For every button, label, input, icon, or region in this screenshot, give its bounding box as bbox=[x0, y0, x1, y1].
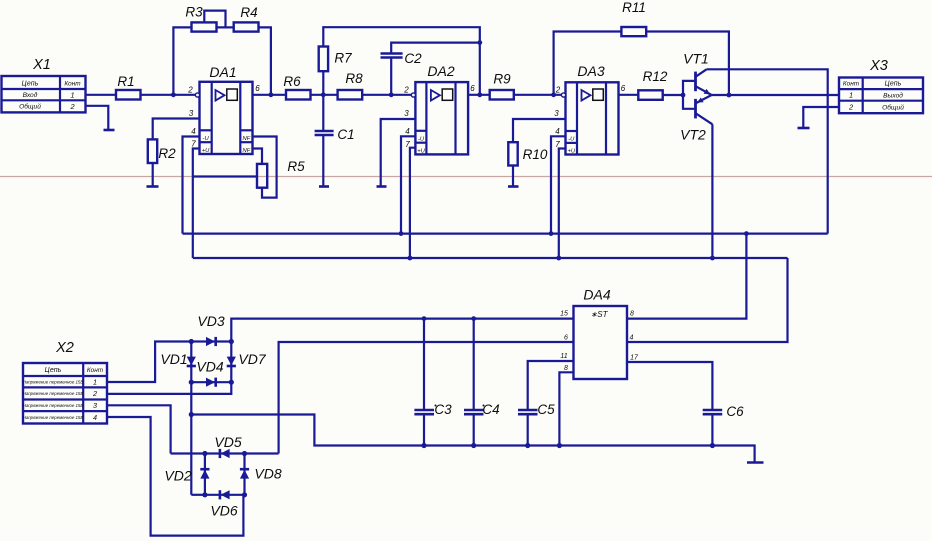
ground bar bus end bbox=[747, 461, 764, 464]
svg-text:3: 3 bbox=[404, 109, 409, 118]
wire R4 to DA1 output node bbox=[259, 27, 271, 94]
svg-text:-U: -U bbox=[418, 137, 425, 143]
node lower bus DA3 bbox=[556, 256, 561, 261]
node upper bus DA2 bbox=[399, 231, 404, 236]
wire R3 wiper bracket bbox=[204, 11, 225, 28]
node C3 top bbox=[422, 316, 427, 321]
svg-text:Напряжение переменное 15В: Напряжение переменное 15В bbox=[23, 415, 84, 420]
wire lower supply bus bbox=[193, 257, 788, 259]
svg-text:R3: R3 bbox=[185, 5, 203, 20]
svg-text:VT2: VT2 bbox=[680, 127, 706, 143]
wire DA1 NF top to R5 bottom loop bbox=[253, 137, 277, 198]
svg-text:VD6: VD6 bbox=[210, 503, 237, 519]
node bridge2 bottom left bbox=[202, 492, 207, 497]
node C4 top bbox=[471, 316, 476, 321]
wire R1 to DA1 input bbox=[141, 94, 196, 96]
wire DA2 out to R9 bbox=[468, 94, 490, 96]
wire X2 pin2 to bridge1 bbox=[107, 382, 231, 394]
svg-text:3: 3 bbox=[189, 109, 194, 118]
wire R7 top rail to DA2 output bbox=[323, 27, 480, 95]
svg-text:R5: R5 bbox=[287, 159, 305, 174]
diode VD8 bbox=[240, 469, 249, 478]
wire bridge1 left to bridge2 bottom bbox=[191, 494, 205, 496]
wire DA1 out to R6 bbox=[253, 94, 287, 96]
svg-text:VD8: VD8 bbox=[254, 466, 281, 482]
svg-text:2: 2 bbox=[69, 102, 74, 111]
svg-text:+U: +U bbox=[568, 149, 576, 155]
wire DA4 pin11 to C5 bbox=[528, 361, 574, 410]
svg-text:∗ST: ∗ST bbox=[591, 310, 609, 319]
svg-text:4: 4 bbox=[191, 127, 196, 136]
svg-text:4: 4 bbox=[555, 127, 560, 136]
svg-text:6: 6 bbox=[621, 84, 626, 93]
svg-text:DA4: DA4 bbox=[583, 287, 610, 303]
wire C2 bottom bbox=[390, 58, 392, 95]
svg-text:-U: -U bbox=[568, 137, 575, 143]
svg-text:15: 15 bbox=[560, 311, 568, 318]
wire DA1 pin3 to R2 bbox=[153, 119, 200, 140]
wire DA1 pin4 to upper bus bbox=[183, 137, 200, 234]
node output junction R11 bbox=[727, 93, 732, 98]
wire R10 to ground bbox=[512, 166, 514, 187]
wire DA3 pin3 to R10 bbox=[513, 119, 566, 142]
wire DA2 pin3 to ground bbox=[381, 119, 416, 186]
wire DA4 pin17 to C6 bbox=[627, 362, 712, 410]
svg-text:X3: X3 bbox=[869, 58, 888, 74]
svg-text:Вход: Вход bbox=[23, 91, 38, 99]
transistor VT2 bbox=[683, 95, 712, 124]
wire DA1 pin7 tap to R5 bbox=[193, 175, 257, 177]
wire VT1 collector to supply corner bbox=[707, 69, 828, 233]
svg-text:NF: NF bbox=[243, 148, 251, 154]
svg-text:8: 8 bbox=[564, 365, 568, 372]
svg-text:C3: C3 bbox=[434, 402, 452, 417]
svg-text:8: 8 bbox=[630, 311, 634, 318]
node bus C4 bbox=[471, 443, 476, 448]
svg-text:R10: R10 bbox=[523, 147, 548, 162]
wire DA3 pin7 to lower bus bbox=[559, 149, 566, 259]
wire R11 to emitter node bbox=[646, 32, 729, 95]
capacitor C2 bbox=[381, 54, 403, 58]
svg-text:Конт: Конт bbox=[87, 367, 104, 374]
wire feedback riser left bbox=[173, 27, 191, 94]
diode VD6 bbox=[220, 490, 230, 499]
svg-text:VT1: VT1 bbox=[683, 51, 709, 67]
ground bar R2 bbox=[147, 185, 159, 188]
svg-text:11: 11 bbox=[560, 353, 567, 360]
wire DA2 pin4 to upper bus bbox=[401, 136, 415, 233]
svg-text:Цепь: Цепь bbox=[22, 80, 39, 87]
wire R6 to R8 bbox=[311, 94, 338, 96]
svg-text:Общий: Общий bbox=[19, 103, 41, 111]
wire DA4 pin6 from bridge2 bbox=[279, 342, 574, 454]
wire R12 to base node bbox=[663, 94, 683, 96]
ground bar C1 bbox=[319, 185, 329, 188]
svg-text:NF: NF bbox=[243, 136, 251, 142]
diode VD2 bbox=[200, 469, 209, 478]
node bridge1 top right bbox=[229, 339, 234, 344]
bridge2 left branch bbox=[204, 454, 206, 495]
svg-text:Цепь: Цепь bbox=[45, 367, 62, 374]
svg-text:C4: C4 bbox=[482, 402, 499, 417]
svg-text:VD3: VD3 bbox=[197, 313, 224, 329]
svg-text:1: 1 bbox=[849, 91, 853, 100]
capacitor C4 bbox=[464, 319, 484, 446]
connector X1 bbox=[2, 76, 86, 112]
svg-text:R1: R1 bbox=[117, 74, 134, 89]
bridge2 top rail bbox=[171, 452, 279, 454]
node bus C5 bbox=[525, 443, 530, 448]
svg-text:7: 7 bbox=[191, 140, 196, 149]
node bridge1 bottom right bbox=[229, 380, 234, 385]
svg-text:Напряжение переменное 15В: Напряжение переменное 15В bbox=[23, 380, 84, 385]
capacitor C1 bbox=[315, 131, 334, 135]
wire X1 pin1 to R1 bbox=[86, 94, 117, 96]
node bus C3 bbox=[421, 443, 426, 448]
wire emitter output to X3 pin1 bbox=[712, 94, 839, 96]
svg-text:2: 2 bbox=[848, 103, 853, 112]
op-amp DA2 bbox=[411, 82, 468, 154]
fold line artifact bbox=[0, 176, 932, 178]
ground bar DA2 pin3 bbox=[377, 185, 387, 188]
svg-text:DA3: DA3 bbox=[577, 63, 604, 79]
svg-text:VD1: VD1 bbox=[160, 351, 187, 367]
wire X2 pin3 to bridge2 bbox=[107, 405, 171, 453]
op-amp DA3 bbox=[561, 82, 618, 154]
node bus DA4 pin8 bbox=[557, 443, 562, 448]
wire X3 pin2 to ground bbox=[803, 107, 839, 128]
wire X1 pin2 to ground bbox=[86, 106, 109, 130]
wire C2 top to output riser bbox=[391, 43, 480, 54]
svg-text:X1: X1 bbox=[32, 57, 51, 73]
svg-text:Напряжение переменное 15В: Напряжение переменное 15В bbox=[23, 391, 84, 396]
svg-text:1: 1 bbox=[70, 91, 74, 100]
wire lower bus to DA4 pin4 right bbox=[627, 258, 788, 342]
svg-text:1: 1 bbox=[93, 378, 97, 387]
node lower bus DA2 bbox=[408, 256, 413, 261]
wire DA3 out to R12 bbox=[619, 94, 639, 96]
svg-text:R6: R6 bbox=[283, 74, 301, 89]
chip DA4 bbox=[574, 306, 628, 379]
wire DA4 pin8 left to bus bbox=[559, 372, 573, 445]
node lower bus VT2 bbox=[710, 256, 715, 261]
node bus C6 bbox=[710, 443, 715, 448]
resistor R7 bbox=[319, 47, 328, 72]
svg-text:C2: C2 bbox=[404, 51, 422, 66]
diode VD3 bbox=[206, 337, 216, 346]
transistor VT1 bbox=[683, 69, 712, 95]
node R6 R7 C1 junction bbox=[321, 92, 326, 97]
svg-text:2: 2 bbox=[403, 86, 409, 95]
node DA2 output bbox=[477, 92, 482, 97]
resistor R3 bbox=[192, 22, 217, 31]
capacitor C5 bbox=[518, 410, 538, 446]
svg-text:2: 2 bbox=[92, 389, 97, 398]
node bridge2 top right bbox=[242, 451, 247, 456]
svg-text:3: 3 bbox=[554, 109, 559, 118]
wire R2 to ground bbox=[152, 163, 154, 186]
diode VD1 bbox=[187, 357, 196, 366]
wire upper supply bus bbox=[183, 233, 828, 235]
resistor R1 bbox=[116, 90, 141, 100]
bridge2 bottom rail bbox=[205, 494, 245, 496]
svg-text:2: 2 bbox=[187, 86, 193, 95]
wire VT2 collector to lower bus bbox=[711, 124, 713, 258]
resistor R5 bbox=[257, 164, 267, 188]
svg-text:Конт: Конт bbox=[64, 80, 81, 87]
svg-text:Напряжение переменное 15В: Напряжение переменное 15В bbox=[23, 403, 84, 408]
svg-text:6: 6 bbox=[470, 84, 475, 93]
node upper bus DA4 bbox=[744, 231, 749, 236]
wire C1 top bbox=[322, 95, 324, 131]
resistor R11 bbox=[621, 27, 646, 36]
wire R9 to DA3 input bbox=[514, 94, 562, 96]
ground bar X1 bbox=[104, 129, 115, 132]
wire DA3 pin4 to upper bus bbox=[551, 136, 566, 233]
svg-text:VD5: VD5 bbox=[214, 434, 241, 450]
svg-text:R2: R2 bbox=[158, 146, 176, 161]
svg-text:6: 6 bbox=[255, 84, 260, 93]
svg-text:C6: C6 bbox=[726, 404, 744, 419]
svg-text:R11: R11 bbox=[622, 0, 646, 15]
node bridge1 to ground bus bbox=[189, 412, 194, 417]
wire DA2 pin7 to lower bus bbox=[410, 148, 416, 258]
svg-text:4: 4 bbox=[630, 335, 634, 342]
ground bar X3 bbox=[798, 127, 810, 130]
svg-text:17: 17 bbox=[630, 355, 639, 362]
svg-text:6: 6 bbox=[564, 335, 568, 342]
resistor R9 bbox=[490, 90, 514, 100]
bridge1 right branch bbox=[230, 342, 232, 383]
svg-text:DA1: DA1 bbox=[209, 64, 236, 80]
node bridge1 bottom left bbox=[189, 380, 194, 385]
resistor R6 bbox=[286, 90, 311, 100]
wire X2 pin4 to bridge2 bbox=[107, 417, 243, 536]
wire DA1 pin7 to lower bus bbox=[193, 149, 200, 259]
svg-text:C5: C5 bbox=[537, 402, 555, 417]
wire R7 bottom bbox=[322, 71, 324, 95]
wire X2 pin1 to bridge1 bbox=[107, 342, 191, 383]
svg-text:-U: -U bbox=[203, 136, 210, 142]
wire upper bus to DA4 pin8 right bbox=[627, 234, 746, 319]
wire R8 to DA2 input bbox=[362, 94, 411, 96]
svg-text:X2: X2 bbox=[55, 340, 74, 356]
svg-text:R8: R8 bbox=[345, 71, 363, 86]
wire DA1 NF bottom to R5 top bbox=[253, 149, 263, 164]
svg-text:+U: +U bbox=[202, 148, 210, 154]
node C2 bottom junction bbox=[389, 92, 394, 97]
node bridge2 top left bbox=[202, 451, 207, 456]
svg-text:Цепь: Цепь bbox=[885, 81, 902, 88]
svg-text:3: 3 bbox=[93, 401, 97, 410]
svg-text:R9: R9 bbox=[493, 72, 511, 87]
svg-text:4: 4 bbox=[405, 127, 410, 136]
svg-text:R12: R12 bbox=[643, 69, 668, 84]
svg-text:VD2: VD2 bbox=[164, 468, 191, 484]
node upper bus DA3 bbox=[549, 231, 554, 236]
bridge1 top rail bbox=[191, 340, 231, 342]
svg-text:2: 2 bbox=[555, 86, 561, 95]
node bridge2 bottom right bbox=[242, 492, 247, 497]
resistor R2 bbox=[148, 139, 157, 163]
node input junction bbox=[171, 92, 176, 97]
bridge2 right branch bbox=[243, 454, 245, 495]
resistor R12 bbox=[638, 90, 662, 100]
wire bottom ground bus bbox=[191, 415, 754, 463]
resistor R4 bbox=[234, 22, 259, 31]
svg-text:Общий: Общий bbox=[882, 103, 904, 111]
wire C1 to ground bbox=[322, 135, 324, 186]
svg-text:+U: +U bbox=[417, 148, 425, 154]
svg-text:C1: C1 bbox=[337, 127, 354, 142]
wire bridge1 left down bbox=[190, 382, 192, 495]
diode VD7 bbox=[227, 357, 236, 366]
svg-text:Выход: Выход bbox=[883, 91, 903, 99]
svg-text:R4: R4 bbox=[240, 5, 257, 20]
node DA3 input junction bbox=[551, 92, 556, 97]
diode VD4 bbox=[206, 378, 216, 387]
svg-text:4: 4 bbox=[93, 413, 97, 422]
node DA1 output bbox=[269, 92, 274, 97]
connector X3 bbox=[839, 78, 923, 114]
wire R11 feedback left riser bbox=[554, 32, 622, 95]
svg-text:VD4: VD4 bbox=[196, 359, 223, 375]
svg-text:VD7: VD7 bbox=[238, 351, 266, 367]
capacitor C3 bbox=[414, 319, 434, 446]
resistor R8 bbox=[338, 90, 363, 100]
node transistor base junction bbox=[681, 93, 686, 98]
svg-text:Конт: Конт bbox=[843, 81, 860, 88]
diode VD5 bbox=[220, 449, 230, 458]
bridge1 left branch bbox=[190, 342, 192, 383]
node bridge1 top left bbox=[189, 339, 194, 344]
wire DA4 pin15 from bridge1 bbox=[231, 319, 573, 342]
ground bar R10 bbox=[508, 185, 519, 188]
svg-text:R7: R7 bbox=[334, 51, 352, 66]
wire R3 to R4 bbox=[217, 26, 234, 28]
op-amp DA1 bbox=[195, 82, 252, 154]
resistor R10 bbox=[508, 142, 517, 165]
capacitor C6 bbox=[703, 410, 723, 446]
svg-text:DA2: DA2 bbox=[427, 63, 454, 79]
connector X2 bbox=[23, 363, 107, 424]
node C2 feedback tee bbox=[477, 40, 482, 45]
bridge1 bottom rail bbox=[191, 381, 231, 383]
